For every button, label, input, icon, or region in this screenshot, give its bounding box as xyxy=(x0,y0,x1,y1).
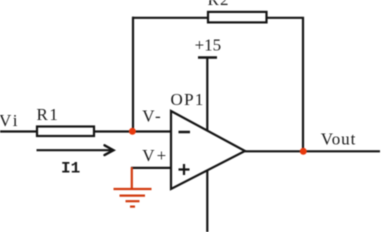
wire: top feedback right segment xyxy=(266,17,302,19)
svg-text:R1: R1 xyxy=(37,105,60,124)
svg-text:+15: +15 xyxy=(195,36,222,55)
wire: feedback right vertical xyxy=(302,17,304,151)
svg-text:Vi: Vi xyxy=(0,111,20,130)
svg-text:OP1: OP1 xyxy=(171,90,205,109)
wire: V+ input xyxy=(131,167,170,169)
wire: +15 to op-amp top xyxy=(206,58,208,131)
svg-text:V+: V+ xyxy=(142,146,168,165)
wire: input from Vi to R1 xyxy=(0,130,37,132)
ground xyxy=(114,188,152,190)
resistor R1 xyxy=(37,127,94,137)
node junction at inverting input xyxy=(129,128,136,135)
op-amp U1 triangle xyxy=(171,111,245,189)
wire: feedback left vertical xyxy=(132,17,134,131)
svg-text:R2: R2 xyxy=(208,0,230,9)
resistor R2 xyxy=(208,12,267,23)
node junction at output xyxy=(300,148,307,155)
svg-text:I1: I1 xyxy=(61,160,80,178)
power +15 bar xyxy=(198,56,217,58)
wire: top feedback left segment xyxy=(132,17,208,19)
current arrow I1 xyxy=(37,149,113,151)
svg-text:V-: V- xyxy=(142,107,162,126)
op-amp plus input symbol xyxy=(179,164,190,175)
wire: output xyxy=(245,150,380,152)
wire: red drop to ground xyxy=(131,167,133,188)
wire: op-amp bottom supply (to edge) xyxy=(206,171,208,232)
op-amp minus input symbol xyxy=(179,131,191,134)
svg-text:Vout: Vout xyxy=(321,129,356,148)
wire: R1 to inverting input xyxy=(94,130,170,132)
